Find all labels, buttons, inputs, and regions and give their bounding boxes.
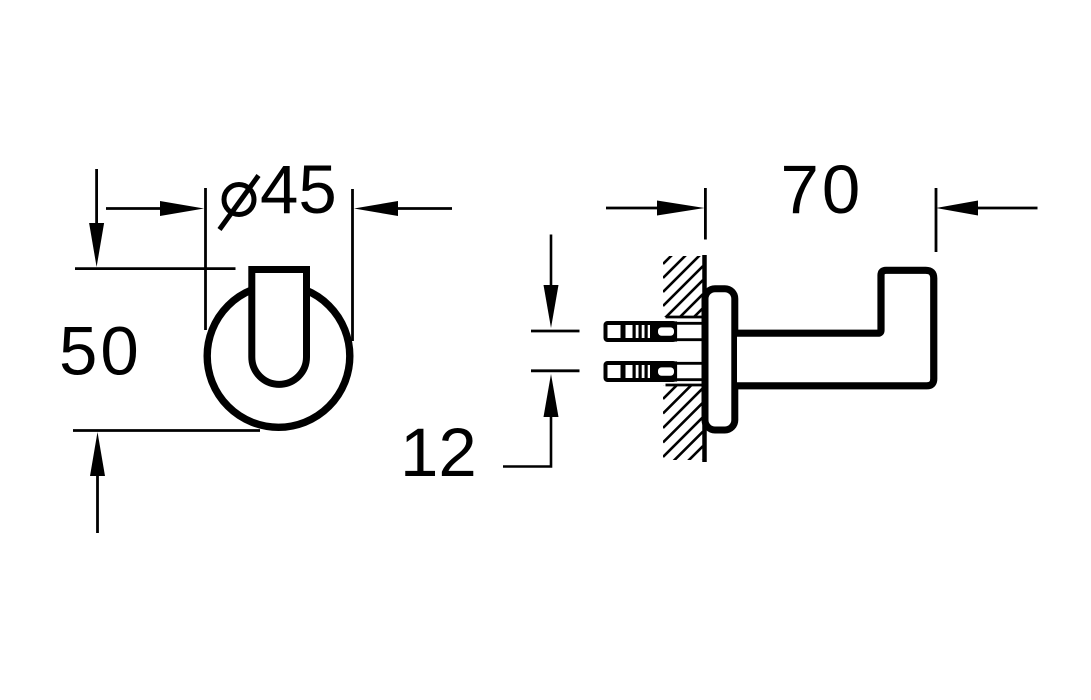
side view: wall plate [705,289,735,430]
dimension 70: left dimension line [606,207,659,210]
dimension 70: right dimension line [977,207,1038,210]
dimension 70: left extension line [704,188,707,240]
side view: wall hatching upper band [663,224,703,348]
svg-text:12: 12 [400,414,477,491]
dimension 70: left arrowhead [657,201,705,216]
side view: screw 1 (top) [606,321,705,341]
svg-text:50: 50 [59,313,142,390]
dimension ø45: left arrowhead [160,201,204,216]
dimension 50: upper arrowhead (points down) [89,223,104,267]
svg-text:70: 70 [781,151,864,228]
dimension 70: right arrowhead [936,201,978,216]
dimension ø45: right dimension line [397,207,452,210]
dimension ø45: left extension line [204,188,207,330]
dimension 50: bottom extension line [73,429,260,432]
dimension 50: upper arrow line [95,169,98,223]
dimension ø45: right arrowhead [354,201,398,216]
svg-text:45: 45 [260,151,337,228]
dimension 12: lower arrow line with elbow leader [503,416,551,467]
side view: wall hatching lower band [663,345,703,501]
front view: hook body circle [207,285,350,428]
dimension ø45: right extension line [351,189,354,341]
dimension 12: lower arrowhead (points up) [544,374,559,417]
dimension 50: top extension line [75,267,236,270]
dimension 12: upper tick line [531,330,580,333]
dimension ø45: left dimension line [106,207,162,210]
side view: screw 2 (bottom) [606,361,705,381]
side view: hook arm profile [737,270,934,386]
dimension 50: lower arrowhead (points up) [90,432,105,476]
dimension ø45: diameter symbol [220,176,259,230]
dimension 12: upper arrowhead (points down) [544,285,559,328]
dimension 12: upper arrow line [550,235,553,287]
dimension 70: right extension line [935,188,938,252]
dimension 50: lower arrow line [96,476,99,533]
front view: U-shaped hook slot [252,270,307,385]
side view: wall hole upper edge [666,316,703,319]
side view: wall surface line [702,255,707,462]
side view: wall hole lower edge [666,384,703,387]
dimension 12: lower tick line [531,369,580,372]
